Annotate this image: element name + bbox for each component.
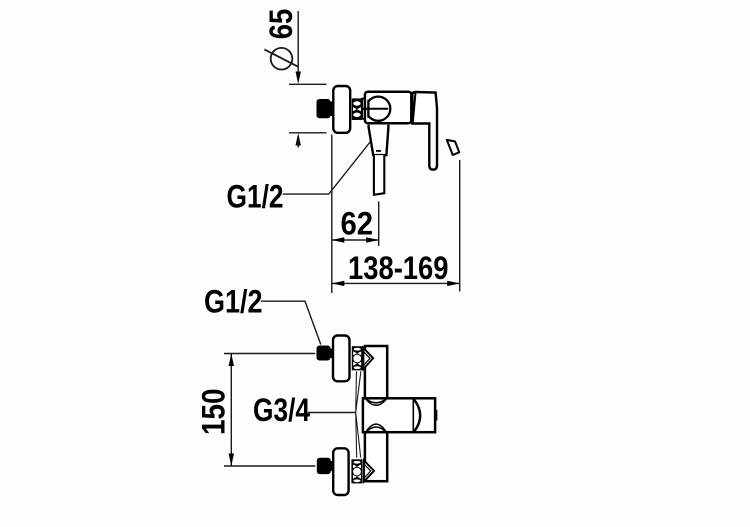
bottom inlet: black block [317,458,331,474]
svg-text:150: 150 [196,389,232,436]
shower outlet trapezoid [369,125,389,155]
svg-text:65: 65 [263,9,299,40]
svg-text:G1/2: G1/2 [204,284,263,320]
leader line G1/2 (front view) [261,301,321,344]
dimension 62 line with arrows [332,239,379,241]
cartridge circle [368,97,390,121]
dimension 150 bottom extension line [224,465,315,467]
wall connector black block (top view) [317,99,331,118]
svg-text:G3/4: G3/4 [253,392,310,428]
dimension 150 top extension line [224,353,315,355]
leader line G1/2 (top view) [283,142,371,195]
right extension line of 62 [378,202,380,247]
cartridge axis line [363,108,388,110]
top inlet: flange [333,336,350,382]
escutcheon flange (top view) [333,86,350,133]
outlet coupler chamfer curve [413,399,420,432]
handle cap and lever (top view) [412,92,437,170]
dimension Ø65 vertical line [297,11,299,72]
diameter symbol slash [264,49,297,66]
arrow up to flange bottom tick [296,133,301,146]
middle wide body [363,398,435,432]
top inlet: cone [363,348,373,369]
arrow down to flange top tick [296,72,301,85]
mixer body (top view) [365,92,411,124]
body scallop bottom [365,424,387,433]
dimension 150 vertical line with arrows [230,354,232,467]
outlet tube [374,155,384,195]
bottom inlet: flange [333,448,348,495]
flange bottom extension tick [289,132,327,134]
top inlet: union nut [352,346,363,370]
left extension line of 62 / 138-169 [331,135,333,294]
adapter plate between union and body [362,99,368,119]
handle cap inner line [413,93,416,124]
central body column [365,346,387,481]
top inlet: black block [317,346,331,361]
cartridge chord line [367,100,369,118]
svg-text:138-169: 138-169 [348,250,449,286]
bottom inlet: union nut [351,459,362,483]
svg-text:62: 62 [341,206,374,242]
svg-text:G1/2: G1/2 [227,179,284,215]
bottom inlet: cone [364,461,374,482]
dimension 138-169 line with arrows [332,282,460,284]
lever tip in swung position [447,140,459,155]
body scallop top [365,398,387,405]
flange top extension tick [289,83,327,85]
diameter symbol circle [271,48,293,70]
right extension line of 138-169 [459,160,461,292]
leader line G3/4 [308,412,356,414]
outlet aerator dash [376,150,381,152]
S-union nuts (top view) [352,98,363,120]
outlet coupler right nub [435,410,437,421]
